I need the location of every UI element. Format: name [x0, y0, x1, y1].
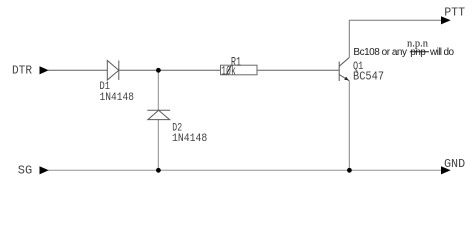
svg-text:BC547: BC547 — [353, 71, 384, 84]
svg-text:n.p.n: n.p.n — [407, 38, 428, 49]
svg-text:DTR: DTR — [12, 64, 32, 77]
svg-text:PTT: PTT — [444, 5, 465, 19]
svg-text:1N4148: 1N4148 — [172, 132, 207, 145]
svg-text:Bc108 or any: Bc108 or any — [353, 47, 407, 58]
svg-text:1N4148: 1N4148 — [100, 91, 134, 104]
svg-text:10k: 10k — [221, 65, 235, 79]
svg-text:GND: GND — [444, 157, 465, 171]
svg-text:will do: will do — [429, 47, 454, 58]
svg-text:SG: SG — [18, 164, 32, 178]
